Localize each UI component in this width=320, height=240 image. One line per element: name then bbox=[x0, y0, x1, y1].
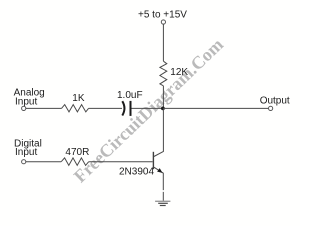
wire: supply to 12K top bbox=[162, 24, 164, 61]
wire: 1K to capacitor bbox=[89, 107, 123, 109]
resistor R 470R bbox=[61, 158, 88, 166]
terminal: power supply bbox=[161, 20, 165, 24]
wire: collector lead bbox=[154, 108, 164, 156]
svg-text:Input: Input bbox=[15, 97, 37, 108]
wire: node to output terminal bbox=[163, 107, 268, 109]
wire: 470R to base bbox=[89, 161, 153, 163]
capacitor C 1.0uF curved plate bbox=[122, 101, 124, 115]
wire: 12K bottom to output node bbox=[162, 86, 164, 109]
node: collector junction dot bbox=[161, 107, 165, 111]
transistor Q1 2N3904 base bar bbox=[152, 152, 154, 169]
terminal: digital input bbox=[22, 160, 26, 164]
svg-text:2N3904: 2N3904 bbox=[119, 166, 154, 177]
ground bbox=[155, 200, 170, 202]
terminal: analog input bbox=[22, 106, 26, 110]
svg-text:Output: Output bbox=[260, 95, 290, 106]
svg-text:Input: Input bbox=[15, 147, 37, 158]
svg-text:1.0uF: 1.0uF bbox=[117, 90, 143, 101]
wire: analog input to 1K bbox=[26, 107, 62, 109]
svg-text:+5 to +15V: +5 to +15V bbox=[138, 10, 187, 21]
resistor R 1K bbox=[62, 105, 89, 112]
svg-text:12K: 12K bbox=[170, 67, 188, 78]
svg-text:1K: 1K bbox=[72, 93, 85, 104]
terminal: output bbox=[269, 106, 273, 110]
svg-text:470R: 470R bbox=[65, 147, 89, 158]
wire: capacitor to output node bbox=[132, 107, 164, 109]
wire: emitter lead bbox=[154, 167, 163, 201]
svg-text:FreeCircuitDiagram.Com: FreeCircuitDiagram.Com bbox=[70, 34, 227, 186]
transistor emitter arrow bbox=[157, 168, 162, 173]
capacitor C 1.0uF straight plate bbox=[130, 101, 132, 116]
resistor R 12K (vertical zigzag) bbox=[160, 61, 167, 86]
wire: digital input to 470R bbox=[26, 161, 61, 163]
